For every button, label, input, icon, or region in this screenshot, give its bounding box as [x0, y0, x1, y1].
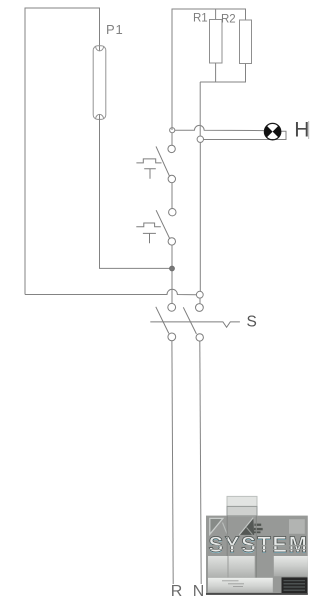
switch S pole2 blade — [183, 307, 196, 334]
terminal circle lamp bottom tap — [197, 136, 203, 142]
thermostat T1 actuator — [136, 159, 161, 163]
thermostat T1 top terminal — [168, 145, 175, 152]
wire T2 down through junction to S — [171, 245, 173, 303]
logo bottom dark edge — [206, 593, 308, 595]
svg-text:P1: P1 — [106, 22, 124, 37]
junction circle feeder2/pole2 — [196, 291, 203, 298]
resistor R1 — [210, 20, 223, 64]
thermostat T2 top terminal — [169, 209, 176, 216]
logo tab — [227, 496, 257, 515]
junction dot feeder1/main — [170, 266, 175, 271]
wire junction to pole2 — [199, 298, 201, 303]
wire feeder bottom with hump over main vertical — [25, 289, 196, 294]
wire outer loop left — [25, 8, 100, 295]
wire R2 bottom — [200, 64, 245, 83]
wire resistor branch down to S pole2 — [199, 143, 201, 292]
thermostat T2 blade — [156, 210, 169, 238]
switch S pole1 blade — [156, 307, 169, 334]
logo column lines — [227, 516, 256, 578]
thermostat T1 blade — [156, 146, 169, 176]
wire T1 to T2 — [171, 183, 173, 209]
svg-text:R2: R2 — [221, 14, 236, 26]
lamp H symbol — [264, 123, 280, 139]
wire R1 tap — [215, 9, 217, 20]
logo bottom-right dark box — [282, 577, 308, 594]
wire right net top — [172, 9, 246, 130]
wire pole2 to N — [200, 341, 201, 584]
node circle main/lamp — [170, 128, 175, 133]
thermostat T2 actuator — [136, 223, 161, 227]
thermostat T2 T-mark — [143, 233, 156, 243]
svg-text:N: N — [193, 583, 205, 600]
wire resistors down vertical — [199, 82, 201, 136]
wire lamp bottom — [204, 131, 287, 139]
faint right-edge mark — [308, 121, 310, 139]
switch S pole2 bottom terminal — [196, 334, 203, 341]
logo sail emblem — [239, 518, 254, 535]
logo right light bar — [274, 556, 308, 576]
logo bottom-left light box — [208, 556, 255, 578]
wire P1 down to feeder — [100, 115, 170, 269]
thermostat T2 bottom terminal — [168, 238, 175, 245]
svg-text:H: H — [294, 118, 309, 141]
P1 top inner arc — [96, 46, 104, 51]
capillary tube P1 body — [93, 46, 106, 120]
svg-text:R1: R1 — [193, 13, 208, 25]
P1 bottom inner arc — [96, 114, 104, 119]
switch S pole2 top terminal — [196, 304, 204, 312]
switch S pole1 bottom terminal — [168, 333, 176, 341]
svg-text:S: S — [247, 314, 257, 331]
wire R1 bottom — [200, 63, 215, 82]
switch S pole1 top terminal — [168, 303, 176, 311]
thermostat T1 T-mark — [144, 169, 156, 179]
logo sail speed dashes — [254, 524, 261, 526]
logo main rect — [206, 516, 308, 595]
resistor R2 — [240, 20, 252, 64]
logo top-right square — [289, 519, 305, 534]
thermostat T1 bottom terminal — [168, 175, 175, 182]
wire pole1 to R — [172, 341, 173, 584]
switch S link line with v actuator — [150, 322, 240, 327]
logo top-left triangle — [210, 518, 223, 534]
svg-text:R: R — [171, 583, 183, 600]
logo lower light band with fine print — [208, 578, 273, 593]
wire main vertical to T1 — [171, 133, 173, 145]
wire lamp top with hump over resistor vertical — [175, 125, 264, 130]
logo column line over box — [227, 556, 229, 578]
